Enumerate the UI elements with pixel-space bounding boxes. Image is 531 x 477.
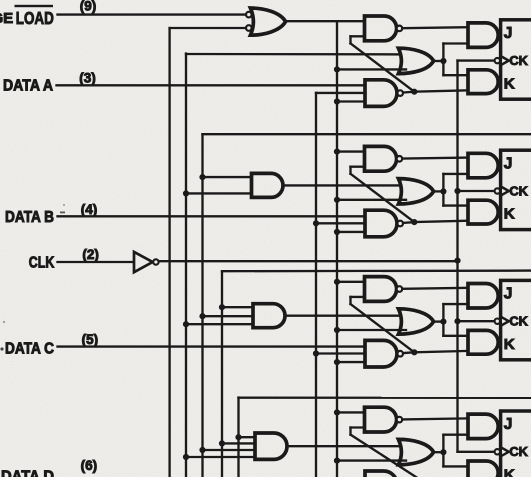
svg-text:CK: CK <box>509 444 528 459</box>
svg-text:DATA D: DATA D <box>1 468 54 477</box>
svg-text:(5): (5) <box>82 332 99 347</box>
svg-text:(2): (2) <box>82 247 99 262</box>
svg-text:J: J <box>504 155 513 172</box>
svg-text:J: J <box>504 416 513 433</box>
svg-text:J: J <box>504 286 513 303</box>
svg-text:LOAD: LOAD <box>16 8 54 28</box>
svg-text:K: K <box>504 206 515 223</box>
svg-text:CK: CK <box>509 53 528 68</box>
svg-text:DATA B: DATA B <box>5 209 54 226</box>
svg-text:K: K <box>504 467 515 477</box>
svg-text:DATA C: DATA C <box>5 341 54 358</box>
svg-text:K: K <box>504 75 515 92</box>
svg-text:GE: GE <box>0 10 13 27</box>
svg-text:(4): (4) <box>81 202 98 217</box>
svg-text:(6): (6) <box>81 458 98 473</box>
svg-text:J: J <box>504 25 513 42</box>
svg-text:(9): (9) <box>80 0 97 13</box>
svg-text:CK: CK <box>509 314 528 329</box>
svg-text:(3): (3) <box>79 71 96 86</box>
svg-text:DATA A: DATA A <box>3 77 53 94</box>
svg-text:K: K <box>504 336 515 353</box>
svg-text:CLK: CLK <box>29 255 55 272</box>
svg-text:CK: CK <box>509 183 528 198</box>
